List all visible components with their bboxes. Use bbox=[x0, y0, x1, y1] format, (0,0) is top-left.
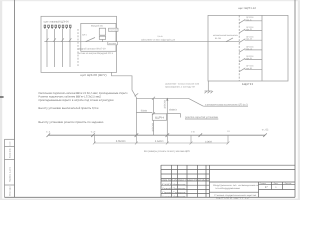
svg-text:0,4 кВ: 0,4 кВ bbox=[158, 35, 164, 38]
svg-text:1500: 1500 bbox=[163, 99, 166, 109]
svg-text:гр.5: гр.5 bbox=[246, 57, 252, 60]
svg-text:присоединить к контуру ЗУ: присоединить к контуру ЗУ bbox=[165, 85, 196, 88]
svg-text:счетчик: счетчик bbox=[109, 30, 117, 32]
svg-text:эл.оборудование: эл.оборудование bbox=[215, 187, 241, 190]
svg-text:счетчик эл.энергии Меркурий 20: счетчик эл.энергии Меркурий 201.5 bbox=[78, 52, 114, 55]
svg-text:1500: 1500 bbox=[116, 140, 127, 143]
svg-text:Разраб: Разраб bbox=[162, 187, 171, 190]
svg-text:Иванов: Иванов bbox=[173, 183, 186, 186]
svg-text:гр.2: гр.2 bbox=[246, 28, 252, 31]
svg-text:1500: 1500 bbox=[155, 140, 165, 143]
svg-text:вводной автомат ВА47-29: вводной автомат ВА47-29 bbox=[78, 47, 107, 50]
svg-text:гр.1: гр.1 bbox=[246, 18, 252, 21]
svg-text:Пров: Пров bbox=[162, 191, 171, 194]
svg-text:Меркурий 201: Меркурий 201 bbox=[91, 25, 104, 28]
svg-text:Схема подключения щитов: Схема подключения щитов bbox=[214, 194, 257, 197]
svg-text:щит ЩЭ-06 (ВРУ): щит ЩЭ-06 (ВРУ) bbox=[80, 73, 107, 77]
svg-text:Все размеры уточнить по месту: Все размеры уточнить по месту монтажа ЩР… bbox=[144, 150, 190, 153]
svg-text:гр.6: гр.6 bbox=[246, 67, 252, 70]
svg-text:Высоту установки выключателей: Высоту установки выключателей принять 0,… bbox=[38, 106, 98, 110]
svg-text:1500: 1500 bbox=[151, 122, 154, 132]
svg-text:кабель ВВГнг-LS 3х6 в гофротру: кабель ВВГнг-LS 3х6 в гофротрубе д.25 bbox=[141, 39, 176, 42]
svg-text:ЩРН: ЩРН bbox=[155, 116, 164, 119]
svg-text:автоматический выключатель: автоматический выключатель bbox=[213, 34, 238, 37]
svg-text:ЩРН: ЩРН bbox=[242, 82, 253, 86]
svg-text:заземление - полоса стальная 4: заземление - полоса стальная 4х25 bbox=[165, 82, 200, 85]
svg-text:Листов: Листов bbox=[285, 182, 292, 185]
svg-text:Взам.инв: Взам.инв bbox=[8, 149, 11, 159]
svg-text:розетка скрытой установки: розетка скрытой установки bbox=[185, 116, 219, 119]
svg-text:к автоматическому выключателю: к автоматическому выключателю QF3 (гр.2) bbox=[205, 103, 248, 106]
svg-text:щит этажный ЩЭ-06: щит этажный ЩЭ-06 bbox=[44, 21, 70, 24]
svg-text:Подпись и дата: Подпись и дата bbox=[8, 166, 11, 182]
svg-text:гр.4: гр.4 bbox=[246, 47, 252, 50]
svg-text:Р: Р bbox=[265, 186, 268, 189]
svg-text:Инв.подл: Инв.подл bbox=[8, 186, 11, 196]
svg-text:Стадия: Стадия bbox=[260, 182, 266, 185]
svg-text:Сидоров: Сидоров bbox=[173, 191, 186, 194]
svg-text:Лист: Лист bbox=[274, 182, 279, 185]
svg-text:Внутреннее эл. освещение и: Внутреннее эл. освещение и bbox=[213, 184, 259, 187]
svg-text:ЩЭ-06 и ЩРН-12: ЩЭ-06 и ЩРН-12 bbox=[216, 197, 250, 200]
svg-text:ВА 25А: ВА 25А bbox=[215, 37, 222, 40]
svg-text:1000: 1000 bbox=[205, 140, 213, 143]
svg-text:гр.3: гр.3 bbox=[246, 38, 252, 41]
svg-text:Высоту установки розеток приня: Высоту установки розеток принять по зада… bbox=[38, 120, 103, 124]
svg-text:Иванов: Иванов bbox=[173, 195, 186, 198]
svg-text:щит ЩРН-12: щит ЩРН-12 bbox=[238, 7, 257, 10]
svg-text:Н.контр: Н.контр bbox=[162, 195, 171, 198]
svg-text:Изм Кол.уч Лист №док Подп Дата: Изм Кол.уч Лист №док Подп Дата bbox=[162, 179, 211, 182]
svg-text:прокладываемым скрыто в штробе: прокладываемым скрыто в штробе под слоем… bbox=[38, 98, 113, 102]
svg-text:ГИП: ГИП bbox=[162, 183, 173, 186]
svg-text:автомат: автомат bbox=[109, 43, 117, 45]
svg-text:Петров: Петров bbox=[173, 187, 186, 190]
